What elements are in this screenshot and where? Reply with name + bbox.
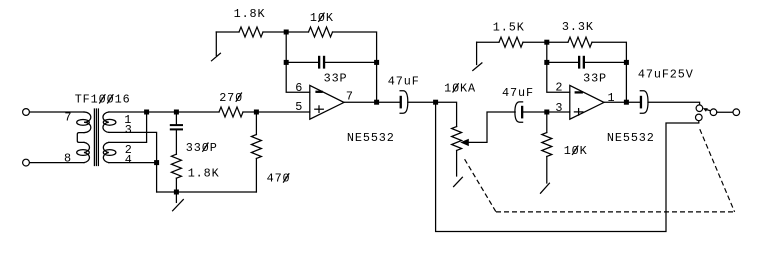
- svg-text:330P: 330P: [186, 141, 218, 155]
- resistor 10K stage2: [542, 133, 552, 157]
- capacitor 330P leads: [175, 112, 177, 124]
- resistor 470: [251, 135, 261, 159]
- ground tick pot bottom: [454, 177, 463, 186]
- wire feedback2 vertical to pin 2: [547, 42, 570, 92]
- wire feedback2 rail left: [477, 41, 499, 43]
- transformer primary series elbow: [77, 133, 84, 143]
- bottom ground rail: [157, 191, 257, 193]
- pot wiper arrow: [460, 139, 469, 146]
- svg-text:47uF: 47uF: [502, 86, 534, 100]
- svg-text:1.8K: 1.8K: [234, 7, 266, 21]
- wire 3.3K right to output vertical: [592, 42, 626, 102]
- svg-text:270: 270: [219, 91, 243, 105]
- resistor 10K stage2 leads: [546, 112, 548, 133]
- plus sign pin 3: [574, 109, 583, 116]
- wire pin 3 down to pin 4: [109, 132, 157, 192]
- svg-text:47uF: 47uF: [388, 74, 420, 88]
- bypass loop wire (switch lower contact to stage1 output): [436, 102, 699, 231]
- transformer core: [94, 109, 98, 166]
- svg-text:3: 3: [125, 123, 133, 137]
- slashed zero marks: [100, 13, 578, 182]
- ground tick below rail: [173, 194, 184, 211]
- zero slash 10KA: [453, 84, 458, 92]
- wire 47uF25V to switch: [648, 102, 700, 105]
- node junction output/feedback: [374, 100, 379, 105]
- zero slash 10K: [319, 13, 324, 21]
- resistor 1.8K (input shunt): [171, 154, 181, 178]
- svg-text:6: 6: [295, 81, 303, 95]
- wire feedback vertical to pin 6: [286, 32, 310, 92]
- wire pin 2 up to pin 1 (parallel secondaries): [109, 112, 147, 142]
- capacitor 330P plates: [170, 124, 183, 130]
- op-amp U2 NE5532 triangle: [570, 85, 604, 119]
- input terminal top-left: [23, 109, 30, 116]
- ground tick 10K bottom: [541, 183, 550, 193]
- ground tick stage1 feedback left: [212, 32, 221, 61]
- wire wiper to 47uF #2: [469, 112, 515, 142]
- svg-text:8: 8: [64, 152, 72, 166]
- capacitor 47uF curved plate: [400, 91, 408, 113]
- capacitor 33P plates: [318, 56, 325, 69]
- capacitor 47uF25V straight plate: [640, 96, 642, 109]
- transformer primary winding top half: [77, 112, 91, 133]
- wire feedback rail left: [216, 31, 239, 33]
- capacitor 33P #2 plates: [578, 56, 585, 69]
- plus sign pin 5: [315, 106, 324, 113]
- node junction feedback top: [284, 30, 289, 35]
- minus sign pin 6: [315, 91, 322, 93]
- resistor 270: [219, 107, 243, 117]
- svg-text:NE5532: NE5532: [347, 131, 395, 145]
- svg-text:7: 7: [346, 90, 354, 104]
- transformer primary winding bottom half: [77, 142, 90, 162]
- capacitor 47uF #2 curved plate: [515, 102, 523, 122]
- node junction 33P#2 left: [544, 60, 549, 65]
- wire between 1.5K and 3.3K: [523, 41, 568, 43]
- svg-text:10K: 10K: [564, 144, 588, 158]
- transformer secondary winding A (pins 1-3): [103, 112, 116, 132]
- node junction 270/470: [254, 110, 259, 115]
- node junction 330P top: [174, 110, 179, 115]
- pot bottom lead: [456, 151, 458, 177]
- zero slash 270: [236, 93, 241, 101]
- zero slash 330P: [203, 143, 208, 151]
- wire 47uF #2 to op-amp pin 3: [523, 111, 570, 113]
- resistor 3.3K: [568, 37, 592, 47]
- svg-text:3: 3: [555, 101, 563, 115]
- capacitor 33P #2 leads: [547, 61, 578, 63]
- wire pin 1 to input rail: [109, 111, 219, 113]
- zero slash 470: [284, 174, 289, 182]
- node junction pin3/pin4: [154, 160, 159, 165]
- svg-text:2: 2: [555, 81, 563, 95]
- svg-text:1: 1: [608, 91, 616, 105]
- wire 10K right to output vertical: [333, 32, 377, 102]
- wire op-amp2 output: [604, 101, 640, 103]
- potentiometer 10KA body: [452, 127, 462, 151]
- resistor 1.8K (feedback): [239, 27, 263, 37]
- svg-text:470: 470: [267, 172, 291, 186]
- transformer secondary winding B (pins 2-4): [103, 142, 116, 162]
- capacitor 47uF #2 straight plate: [521, 106, 523, 119]
- svg-text:5: 5: [295, 100, 303, 114]
- resistor 10K (feedback): [309, 27, 333, 37]
- wire input bottom to transformer pin 8: [30, 162, 84, 164]
- resistor 470 leads: [255, 112, 257, 135]
- switch lever with arrow: [703, 108, 711, 112]
- svg-text:10KA: 10KA: [444, 82, 476, 96]
- svg-text:1.5K: 1.5K: [493, 20, 525, 34]
- svg-text:NE5532: NE5532: [607, 131, 655, 145]
- svg-text:1.8K: 1.8K: [188, 166, 220, 180]
- svg-text:33P: 33P: [583, 72, 607, 86]
- svg-text:7: 7: [64, 111, 72, 125]
- svg-text:10K: 10K: [310, 11, 334, 25]
- node junction pin1/pin2: [144, 110, 149, 115]
- node junction 33P right: [374, 60, 379, 65]
- wire between 1.8K and 10K: [263, 31, 309, 33]
- svg-text:47uF25V: 47uF25V: [638, 68, 694, 82]
- output terminal circle: [733, 109, 740, 116]
- wire op-amp1 output: [344, 101, 400, 103]
- dashed shield line left diagonal: [465, 159, 496, 212]
- node junction output2/feedback: [624, 100, 629, 105]
- switch contact circle top: [696, 105, 703, 112]
- svg-text:3.3K: 3.3K: [562, 20, 594, 34]
- svg-text:TF10016: TF10016: [75, 93, 131, 107]
- ground tick stage2 feedback left: [473, 42, 482, 70]
- node junction pin3/10K: [544, 110, 549, 115]
- dashed shield line right diagonal: [700, 129, 735, 212]
- wire switch to output terminal: [717, 111, 733, 113]
- resistor 1.5K: [499, 37, 523, 47]
- wire pin 4: [109, 162, 157, 164]
- lead 1.8K to rail: [175, 178, 177, 192]
- zero slashes TF10016: [100, 95, 105, 103]
- minus sign pin 2: [575, 91, 583, 93]
- input terminal bottom-left: [23, 159, 30, 166]
- node junction to bypass loop: [433, 100, 438, 105]
- wire 47uF to pot: [408, 102, 457, 126]
- node junction feedback2 top: [544, 40, 549, 45]
- switch contact circle bottom: [696, 114, 703, 121]
- node junction 33P left: [284, 60, 289, 65]
- node junction 33P#2 right: [624, 60, 629, 65]
- dashed shield line bottom: [496, 211, 735, 213]
- capacitor 47uF25V curved plate: [640, 91, 648, 113]
- capacitor 47uF straight plate: [400, 96, 402, 109]
- svg-text:33P: 33P: [324, 72, 348, 86]
- op-amp U1 NE5532 triangle: [310, 85, 344, 119]
- node junction rail/1.8K: [174, 190, 179, 195]
- wire 270 to op-amp pin 5: [243, 111, 310, 113]
- switch pole circle: [710, 109, 717, 116]
- zero slash 10K stage2: [573, 146, 578, 154]
- svg-text:4: 4: [125, 153, 133, 167]
- wire input top to transformer pin 7: [30, 111, 84, 113]
- capacitor 33P leads: [286, 61, 318, 63]
